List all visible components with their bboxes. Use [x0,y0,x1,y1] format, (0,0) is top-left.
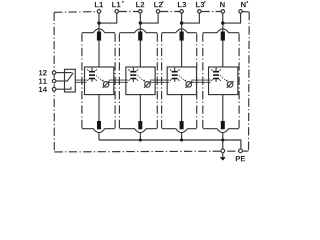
wire: node down to spark gap electrode [98,23,100,32]
disconnector (slashed circle) module 1 [103,82,109,88]
wire: bottom electrode to PE bus [98,132,100,140]
wire: terminal N down to node [222,13,224,23]
wire: terminal L1 down to node [98,13,100,23]
spark gap electrode (top) module 1 [97,32,101,41]
wire: PE bus [99,140,241,149]
terminal N [221,10,225,14]
triggered spark gap F4 (stacked electrodes with corner flashes) [213,71,219,79]
mechanical linkage: remote contact to module disconnectors (double line) [75,80,86,82]
label N [220,2,225,7]
wire: terminal L3 down to node [181,13,183,23]
dashed trigger arrow to disconnector [179,76,185,81]
wire: terminal 11 to contact [56,80,65,82]
label L3&#39; [196,2,204,7]
terminal L3&#39; [198,10,202,14]
wire: terminal L3&#39; down and across to node [182,13,200,23]
spark gap electrode (bottom) module 2 [138,121,142,129]
wire: node down to spark gap electrode [222,23,224,32]
module insert box U3 [167,67,196,95]
wire: module insert down to bottom electrode [98,95,100,121]
wire: bottom electrode to PE bus [181,132,183,140]
label L2 [136,2,144,7]
wire: bottom electrode to PE bus [139,132,141,140]
label 14 [39,87,47,92]
wire: terminal N&#39; down and across to node [223,13,241,23]
terminal L1 [97,10,101,14]
label PE [236,156,245,161]
label L1&#39; [112,2,120,7]
dashed trigger arrow to disconnector [96,76,102,81]
module insert box U4 [209,67,238,95]
triggered spark gap F3 (stacked electrodes with corner flashes) [172,71,178,79]
spark gap electrode (bottom) module 4 [221,121,225,129]
label 12 [39,70,47,75]
spark gap electrode (top) module 3 [180,32,184,41]
disconnector (slashed circle) module 4 [227,82,233,88]
device outline: dash-dot enclosure boundary [54,11,97,14]
terminal 14 [52,87,56,91]
wire: module insert down to bottom electrode [139,95,141,121]
wire: module insert down to bottom electrode [222,95,224,121]
label L1 [95,2,103,7]
node: junction L3/L3&#39; [180,21,183,24]
wire: node down to spark gap electrode [139,23,141,32]
node: junction L1/L1&#39; [97,21,100,24]
module insert box U2 [126,67,155,95]
wire: terminal L1&#39; down and across to node [99,13,117,23]
module insert box U1 [85,67,114,95]
spark gap electrode (top) module 4 [221,32,225,41]
dashed trigger arrow to disconnector [220,76,226,81]
disconnector (slashed circle) module 3 [186,82,192,88]
triggered spark gap F1 (stacked electrodes with corner flashes) [89,71,95,79]
protection module 4 (N) enclosure: dash-dot box with arc openings [203,29,239,33]
label N&#39; [241,2,246,7]
node: module 3 to PE bus [180,138,183,141]
terminal L1&#39; [115,10,119,14]
terminal L2 [139,10,143,14]
terminal 11 [52,79,56,83]
protection module 3 (L3) enclosure: dash-dot box with arc openings [162,29,197,33]
terminal 12 [52,71,56,75]
wire: terminal 14 to contact [56,88,65,90]
ground symbol (earthing arrow) [222,153,224,157]
terminal L3 [180,10,184,14]
spark gap electrode (bottom) module 1 [97,121,101,129]
dashed trigger arrow to disconnector [138,76,144,81]
earth terminal [221,149,225,153]
wire: node down to spark gap electrode [181,23,183,32]
node: junction N/N&#39; [221,21,224,24]
wire: terminal L2 down to node [139,13,141,23]
protection module 2 (L2) enclosure: dash-dot box with arc openings [119,29,157,33]
disconnector (slashed circle) module 2 [145,82,151,88]
wire: electrode to module insert [98,40,100,67]
wire: electrode to module insert [181,40,183,67]
wire: bottom electrode to PE bus [222,132,224,140]
wire: module insert down to bottom electrode [181,95,183,121]
node: junction L2/L2&#39; [139,21,142,24]
spark gap electrode (top) module 2 [138,32,142,41]
wire: electrode to module insert [139,40,141,67]
wire: electrode to module insert [222,40,224,67]
label L3 [178,2,186,7]
remote signalling changeover contact S1 [65,69,76,92]
triggered spark gap F2 (stacked electrodes with corner flashes) [130,71,136,79]
terminal N&#39; [239,10,243,14]
wire: terminal L2&#39; down and across to node [140,13,158,23]
label L2&#39; [154,2,162,7]
label 11 [39,79,47,84]
spark gap electrode (bottom) module 3 [180,121,184,129]
terminal PE [239,149,243,153]
terminal L2&#39; [156,10,160,14]
node: module 2 to PE bus [139,138,142,141]
wire: bus to earth terminal [222,140,224,149]
protection module 1 (L1) enclosure: dash-dot box with arc openings [82,29,115,33]
wire: terminal 12 to contact [56,72,65,74]
node: module 4 to PE bus [221,138,224,141]
